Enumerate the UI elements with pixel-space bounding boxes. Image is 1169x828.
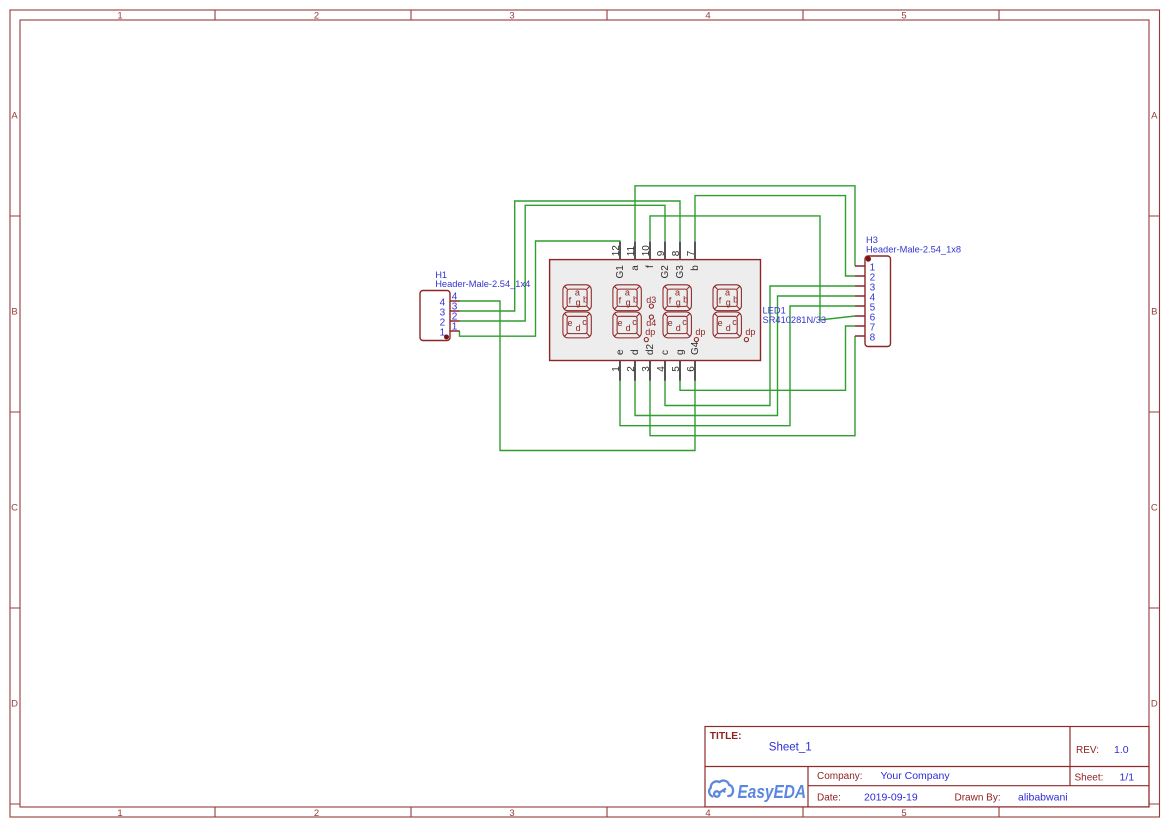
wire LED1 pin3 d2 to H3.8	[650, 336, 855, 436]
wires	[460, 186, 856, 451]
svg-text:A: A	[1151, 111, 1158, 122]
svg-text:d: d	[676, 323, 681, 333]
svg-text:Header-Male-2.54_1x4: Header-Male-2.54_1x4	[435, 279, 530, 289]
svg-text:e: e	[718, 318, 723, 328]
svg-text:e: e	[618, 318, 623, 328]
svg-text:3: 3	[509, 808, 514, 819]
LED1 reference labels	[763, 305, 827, 324]
svg-text:g: g	[576, 297, 581, 307]
svg-text:A: A	[11, 111, 18, 122]
EasyEDA logo	[709, 781, 806, 803]
svg-text:4: 4	[656, 366, 667, 372]
svg-text:g: g	[626, 297, 631, 307]
LED1 digit 1	[563, 285, 591, 338]
svg-text:8: 8	[870, 333, 876, 344]
svg-text:7: 7	[686, 250, 697, 256]
svg-text:D: D	[11, 699, 18, 710]
svg-text:C: C	[11, 503, 18, 514]
svg-text:D: D	[1151, 699, 1158, 710]
svg-text:8: 8	[671, 250, 682, 256]
svg-text:SR410281N/33: SR410281N/33	[763, 315, 827, 325]
svg-text:1: 1	[452, 321, 458, 332]
svg-text:REV:: REV:	[1076, 745, 1099, 756]
svg-text:5: 5	[901, 10, 906, 21]
svg-text:g: g	[675, 349, 686, 355]
wire LED1 pin7 b to H3.2	[695, 196, 855, 276]
svg-text:c: c	[660, 350, 671, 355]
svg-text:a: a	[630, 265, 641, 271]
svg-text:d: d	[726, 323, 731, 333]
svg-text:Your Company: Your Company	[881, 770, 951, 782]
svg-text:G4: G4	[690, 341, 701, 355]
svg-text:B: B	[11, 307, 17, 318]
svg-text:d: d	[630, 349, 641, 355]
svg-text:5: 5	[671, 366, 682, 372]
svg-text:2019-09-19: 2019-09-19	[864, 791, 918, 803]
svg-text:2: 2	[314, 10, 319, 21]
svg-text:C: C	[1151, 503, 1158, 514]
LED1 colon dots d3 d4	[646, 295, 656, 328]
wire LED1 pin4 c to H3.3	[665, 286, 855, 406]
svg-text:1: 1	[440, 327, 446, 338]
header H1	[420, 270, 530, 341]
svg-text:Sheet:: Sheet:	[1075, 772, 1104, 783]
svg-text:b: b	[733, 294, 738, 304]
svg-text:a: a	[625, 288, 630, 298]
svg-text:5: 5	[901, 808, 906, 819]
svg-text:3: 3	[509, 10, 514, 21]
wire H1.2 to LED1 pin9 G2	[460, 205, 666, 321]
svg-text:f: f	[645, 265, 656, 268]
svg-text:B: B	[1151, 307, 1157, 318]
wire LED1 pin2 d to H3.4	[635, 296, 855, 416]
svg-text:1: 1	[611, 366, 622, 372]
svg-text:Header-Male-2.54_1x8: Header-Male-2.54_1x8	[866, 244, 961, 254]
svg-text:4: 4	[705, 10, 710, 21]
svg-text:2: 2	[626, 366, 637, 372]
svg-text:c: c	[632, 317, 637, 327]
svg-text:c: c	[682, 317, 687, 327]
wire LED1 pin5 g to H3.7	[680, 326, 855, 390]
wire LED1 pin10 f to H3.6	[650, 216, 855, 320]
wire H1.3 to LED1 pin8 G3	[460, 201, 681, 311]
svg-text:g: g	[676, 297, 681, 307]
svg-text:2: 2	[314, 808, 319, 819]
wire H1.4 to LED1 pin6 G4	[460, 301, 696, 451]
svg-text:dp: dp	[745, 327, 755, 337]
svg-text:Company:: Company:	[817, 771, 863, 782]
svg-text:Sheet_1: Sheet_1	[769, 742, 812, 754]
svg-text:1.0: 1.0	[1114, 744, 1129, 756]
svg-text:a: a	[575, 288, 580, 298]
svg-text:e: e	[568, 318, 573, 328]
svg-text:g: g	[726, 297, 731, 307]
svg-text:10: 10	[641, 245, 652, 257]
svg-text:d4: d4	[646, 318, 656, 328]
wire LED1 pin11 a to H3.1	[635, 186, 855, 266]
svg-text:1/1: 1/1	[1120, 771, 1135, 783]
svg-text:dp: dp	[695, 327, 705, 337]
svg-text:G1: G1	[615, 265, 626, 279]
svg-text:d: d	[626, 323, 631, 333]
LED1 body	[550, 260, 761, 361]
wire H1.1 to LED1 pin12 G1	[460, 241, 621, 336]
LED1 digit 2	[613, 285, 655, 342]
svg-text:G3: G3	[675, 265, 686, 279]
svg-text:c: c	[582, 317, 587, 327]
svg-text:a: a	[675, 288, 680, 298]
svg-text:alibabwani: alibabwani	[1018, 791, 1068, 803]
svg-text:e: e	[615, 349, 626, 355]
svg-text:Drawn By:: Drawn By:	[955, 792, 1001, 803]
svg-text:EasyEDA: EasyEDA	[738, 782, 807, 802]
svg-text:a: a	[725, 288, 730, 298]
svg-text:9: 9	[656, 250, 667, 256]
svg-text:c: c	[732, 317, 737, 327]
svg-text:6: 6	[686, 366, 697, 372]
svg-text:b: b	[690, 265, 701, 271]
wire LED1 pin1 e to H3.5	[620, 306, 855, 426]
svg-text:Date:: Date:	[817, 792, 841, 803]
svg-text:4: 4	[705, 808, 710, 819]
svg-text:d2: d2	[645, 343, 656, 355]
svg-text:b: b	[633, 294, 638, 304]
header H3	[855, 235, 961, 347]
svg-text:e: e	[668, 318, 673, 328]
svg-text:12: 12	[611, 245, 622, 257]
LED1 digit 4	[713, 285, 755, 342]
svg-text:TITLE:: TITLE:	[710, 731, 742, 742]
svg-text:b: b	[583, 294, 588, 304]
svg-text:dp: dp	[645, 327, 655, 337]
LED1 pin numbers bottom 1 2 3 4 5 6	[611, 366, 697, 372]
LED1 pin stubs top 12,11,10,9,8,7 / bottom 1..6	[620, 242, 695, 381]
svg-text:d: d	[576, 323, 581, 333]
svg-text:b: b	[683, 294, 688, 304]
svg-text:3: 3	[641, 366, 652, 372]
LED1 pin names top G1 a f G2 G3 b	[611, 245, 701, 372]
svg-text:11: 11	[626, 245, 637, 256]
svg-text:G2: G2	[660, 265, 671, 279]
svg-text:1: 1	[117, 808, 122, 819]
LED1 digit 3	[663, 285, 705, 342]
title block	[705, 727, 1149, 807]
svg-text:1: 1	[117, 10, 122, 21]
